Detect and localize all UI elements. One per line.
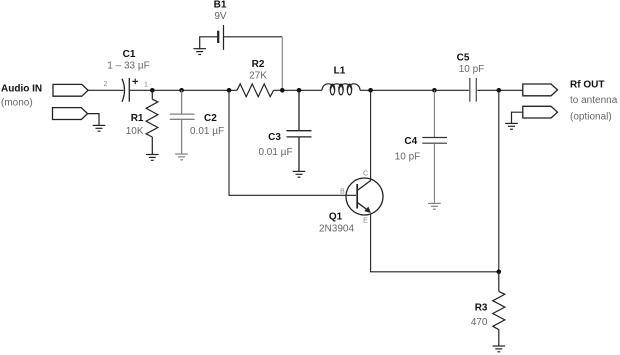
B1 positive long plate — [223, 25, 225, 50]
svg-text:E: E — [363, 218, 368, 225]
B1 negative short plate — [217, 31, 219, 43]
svg-text:Q1: Q1 — [329, 212, 343, 223]
wire B1 drop to R2 node — [281, 37, 283, 91]
svg-text:C1: C1 — [123, 49, 136, 60]
ground (below R1) — [146, 155, 159, 161]
wire B1 negative to ground — [200, 37, 217, 49]
svg-text:1: 1 — [144, 82, 148, 89]
svg-text:10 pF: 10 pF — [395, 152, 421, 163]
svg-text:470: 470 — [471, 317, 488, 328]
wire emitter drop — [371, 214, 499, 272]
svg-text:B: B — [340, 189, 345, 196]
svg-text:2N3904: 2N3904 — [319, 224, 354, 235]
capacitor C3 — [287, 90, 312, 171]
node junction (R2/B1) — [280, 88, 285, 93]
svg-text:Audio IN: Audio IN — [1, 84, 42, 95]
svg-text:C4: C4 — [404, 136, 417, 147]
capacitor C1 straight plate — [128, 78, 130, 102]
svg-text:C2: C2 — [204, 113, 217, 124]
ground (audio input shield) — [93, 125, 106, 131]
wire RF node drop to emitter rail — [498, 90, 500, 271]
node junction (C3 tap) — [297, 88, 302, 93]
inductor L1 — [322, 84, 360, 95]
ground (below C2) — [175, 154, 188, 160]
svg-text:B1: B1 — [214, 0, 227, 11]
Q1 base bar — [356, 184, 358, 209]
svg-text:Rf OUT: Rf OUT — [570, 80, 604, 91]
svg-text:(optional): (optional) — [570, 112, 612, 123]
connector J1 Audio IN signal pin — [53, 84, 88, 96]
wire R2 right to L1 — [274, 89, 322, 91]
svg-text:R2: R2 — [252, 59, 265, 70]
svg-text:10K: 10K — [126, 126, 144, 137]
node junction (C2 tap) — [179, 88, 184, 93]
svg-text:C5: C5 — [457, 53, 470, 64]
svg-text:0.01 µF: 0.01 µF — [190, 126, 224, 137]
wire audio in to C1 — [88, 89, 124, 91]
ground (below C4) — [428, 203, 441, 209]
capacitor C1 (electrolytic, curved plate) — [122, 79, 125, 102]
connector J1 Audio IN ground pin — [53, 108, 88, 120]
resistor R2 — [237, 84, 274, 97]
node junction (C4 tap) — [432, 88, 437, 93]
svg-text:R1: R1 — [131, 113, 144, 124]
capacitor C4 — [422, 90, 447, 203]
svg-text:10 pF: 10 pF — [459, 64, 485, 75]
ground (RF out shield) — [505, 123, 518, 129]
node junction (emitter/R3) — [497, 270, 502, 275]
capacitor C5 — [470, 78, 477, 102]
capacitor C2 — [170, 90, 195, 154]
node junction (C5/R3/RF) — [497, 88, 502, 93]
svg-text:2: 2 — [104, 81, 108, 88]
Q1 collector stroke — [358, 181, 371, 190]
ground (battery negative) — [193, 49, 206, 55]
node junction (R2 left / base tap) — [227, 88, 232, 93]
C1 plus polarity mark — [132, 79, 138, 85]
wire B1 positive feed — [224, 36, 282, 38]
wire audio ground pin to ground — [88, 114, 99, 126]
ground (below R3) — [493, 346, 506, 352]
wire L1 to C5 — [360, 89, 469, 91]
wire base from node to Q1 — [229, 90, 356, 195]
svg-text:R3: R3 — [475, 303, 488, 314]
svg-text:to antenna: to antenna — [570, 95, 618, 106]
svg-text:0.01 µF: 0.01 µF — [258, 147, 292, 158]
ground (below C3) — [293, 171, 306, 177]
wire collector drop — [370, 90, 372, 181]
resistor R1 — [146, 90, 158, 154]
wire RF ground pin to ground — [512, 112, 523, 123]
svg-text:27K: 27K — [249, 71, 267, 82]
svg-text:L1: L1 — [334, 66, 346, 77]
svg-text:(mono): (mono) — [1, 98, 33, 109]
Q1 emitter stroke with arrow — [358, 203, 368, 211]
node junction (L1/collector) — [368, 88, 373, 93]
svg-text:C: C — [363, 171, 368, 178]
svg-text:1 – 33 µF: 1 – 33 µF — [107, 61, 149, 72]
node A junction (C1/R1) — [150, 88, 155, 93]
svg-text:C3: C3 — [268, 132, 281, 143]
wire C1 to node A — [130, 89, 237, 91]
connector J2 Rf OUT signal pin — [523, 84, 558, 96]
wire C5 to Rf OUT — [477, 89, 523, 91]
connector J2 Rf OUT ground pin — [523, 106, 558, 118]
transistor Q1 circle — [346, 178, 383, 215]
resistor R3 — [493, 272, 505, 346]
svg-text:9V: 9V — [214, 11, 227, 22]
